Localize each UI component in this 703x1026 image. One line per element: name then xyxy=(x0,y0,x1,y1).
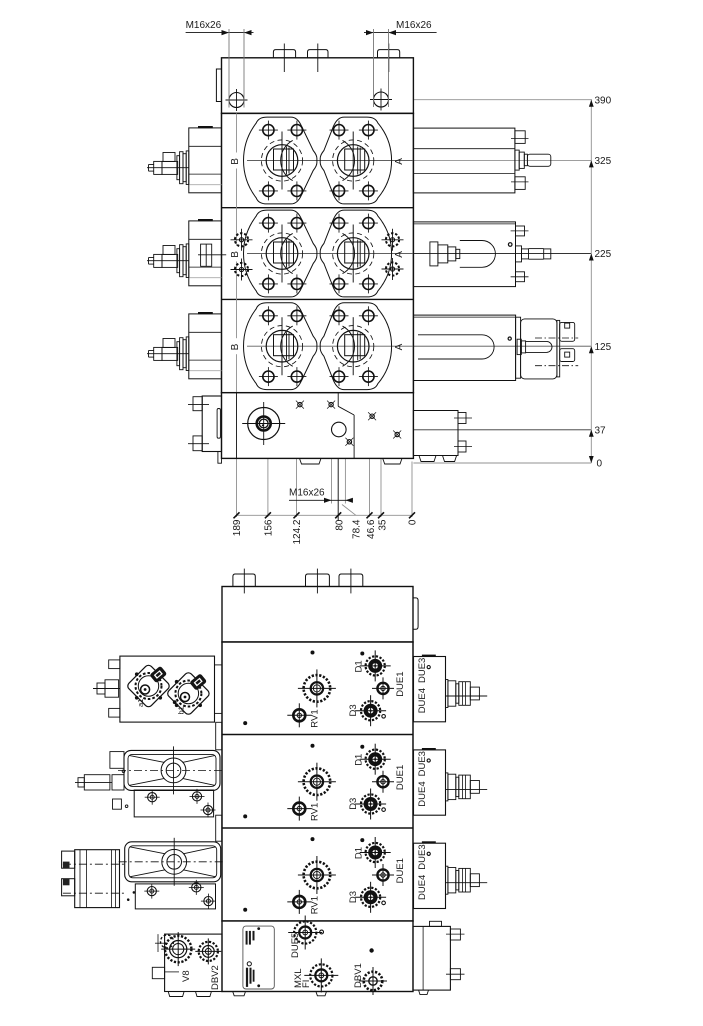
svg-text:DUE4: DUE4 xyxy=(417,781,428,806)
svg-text:M16x26: M16x26 xyxy=(289,488,325,499)
svg-text:0: 0 xyxy=(408,519,419,525)
svg-text:A: A xyxy=(394,158,405,165)
svg-text:DBV2: DBV2 xyxy=(210,965,221,990)
svg-text:156: 156 xyxy=(264,519,275,536)
svg-text:DUE1: DUE1 xyxy=(395,671,406,696)
svg-text:FI: FI xyxy=(301,980,312,988)
svg-text:DUE3: DUE3 xyxy=(417,751,428,776)
svg-text:DUE4: DUE4 xyxy=(417,688,428,713)
svg-text:DUE4: DUE4 xyxy=(417,875,428,900)
svg-text:390: 390 xyxy=(595,95,612,106)
svg-text:M16x26: M16x26 xyxy=(186,20,222,31)
svg-text:DUE3: DUE3 xyxy=(417,658,428,683)
svg-text:DUE1: DUE1 xyxy=(395,858,406,883)
svg-text:225: 225 xyxy=(595,249,612,260)
svg-text:D1: D1 xyxy=(354,847,365,859)
svg-text:D1: D1 xyxy=(354,754,365,766)
svg-text:35: 35 xyxy=(378,519,389,531)
svg-text:B: B xyxy=(230,251,241,258)
svg-text:125: 125 xyxy=(595,342,612,353)
svg-text:RV1: RV1 xyxy=(309,803,320,821)
svg-text:DUE5: DUE5 xyxy=(290,933,301,958)
svg-text:V8: V8 xyxy=(181,970,192,982)
svg-text:D1: D1 xyxy=(354,660,365,672)
svg-text:D3: D3 xyxy=(348,704,359,716)
svg-text:a1: a1 xyxy=(136,699,145,707)
svg-text:0: 0 xyxy=(597,459,603,470)
svg-text:A: A xyxy=(394,251,405,258)
svg-text:b1: b1 xyxy=(177,706,186,714)
svg-text:DUE1: DUE1 xyxy=(395,765,406,790)
svg-text:124.2: 124.2 xyxy=(292,519,303,544)
svg-text:325: 325 xyxy=(595,156,612,167)
svg-text:DBV1: DBV1 xyxy=(353,963,364,988)
svg-text:RV1: RV1 xyxy=(309,896,320,914)
svg-text:M16x26: M16x26 xyxy=(396,20,432,31)
svg-text:B: B xyxy=(230,158,241,165)
svg-text:D3: D3 xyxy=(348,891,359,903)
svg-text:189: 189 xyxy=(232,519,243,536)
svg-text:D3: D3 xyxy=(348,798,359,810)
svg-text:B: B xyxy=(230,343,241,350)
svg-text:A: A xyxy=(394,343,405,350)
svg-text:RV1: RV1 xyxy=(309,709,320,727)
svg-text:78.4: 78.4 xyxy=(352,519,363,539)
svg-text:DUE3: DUE3 xyxy=(417,844,428,869)
svg-text:37: 37 xyxy=(595,425,607,436)
svg-text:46.6: 46.6 xyxy=(366,519,377,539)
svg-text:80: 80 xyxy=(334,519,345,531)
